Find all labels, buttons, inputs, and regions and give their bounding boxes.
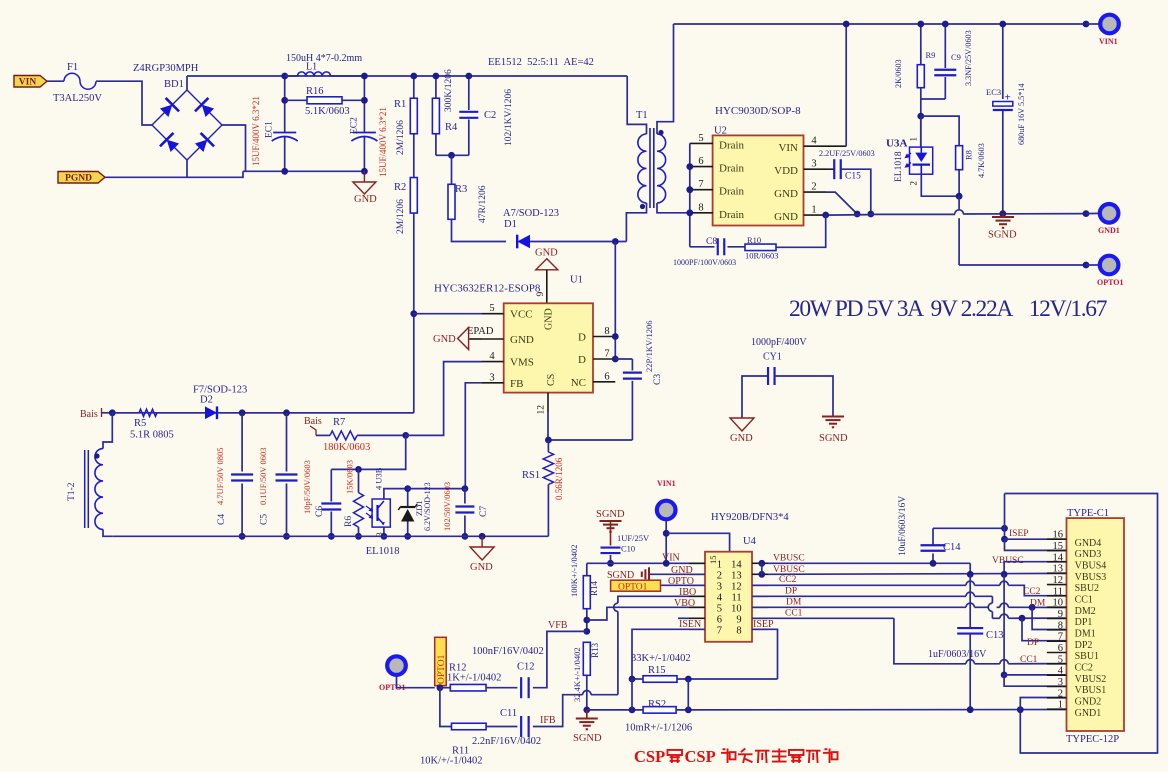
resistor R8 [956,146,963,170]
wire [186,76,188,90]
svg-text:GND4: GND4 [1075,538,1102,549]
U4 pin 13 [752,573,768,575]
T1 primary winding [627,76,646,134]
svg-text:VBUS1: VBUS1 [1075,685,1107,696]
TYPE-C1 pin 9 DP1 [1047,618,1067,620]
U2 pin 5 Drain [690,142,713,144]
wire to transformer primary bottom [626,203,646,242]
ground SGND R13 [586,710,588,719]
node [462,533,469,540]
node [281,73,288,80]
svg-text:T1-2: T1-2 [67,482,77,501]
node [917,113,924,120]
IC U4 HY920B/DFN3*4 [705,552,752,642]
U4 pin 11 [752,595,768,597]
wire DP [752,595,966,597]
resistor R3 [451,155,453,184]
node [867,211,874,218]
TYPE-C1 pin 1 GND1 [1047,708,1067,710]
wire [452,219,507,241]
svg-text:R13: R13 [590,642,600,658]
svg-text:C10: C10 [621,544,635,554]
svg-text:GND: GND [671,565,693,576]
node [355,466,362,473]
svg-text:A7/SOD-123: A7/SOD-123 [503,208,559,219]
svg-text:L1: L1 [306,62,317,73]
svg-text:10: 10 [1053,598,1064,609]
svg-text:GND1: GND1 [1075,708,1102,719]
svg-text:2M/1206: 2M/1206 [396,120,406,155]
wire U1 pin9 [546,270,548,304]
ground GND [363,171,365,182]
wire [105,171,243,177]
svg-text:GND: GND [774,211,798,223]
node [433,73,440,80]
IC U1 HYC3632ER12-ESOP8 [504,303,593,392]
svg-text:NC: NC [571,377,586,389]
capacitor C2 [468,76,470,110]
svg-text:22P/1KV/1206: 22P/1KV/1206 [644,321,654,372]
wire [548,439,632,441]
wire IFB [591,694,618,696]
svg-text:5: 5 [717,604,722,615]
svg-text:8: 8 [1058,620,1063,631]
wire DM [752,606,966,608]
svg-text:100K+/-1/0402: 100K+/-1/0402 [569,545,579,598]
T1 core [649,128,651,208]
ground SGND U4 pin2 [649,573,705,575]
capacitor C12 [520,677,522,698]
svg-text:7: 7 [698,179,703,190]
svg-text:15: 15 [1053,541,1064,552]
svg-text:4.7K/0603: 4.7K/0603 [977,143,986,178]
svg-text:100nF/16V/0402: 100nF/16V/0402 [472,646,544,657]
svg-text:R6: R6 [344,516,354,527]
svg-text:10uF/0603/16V: 10uF/0603/16V [898,496,908,556]
svg-text:CC2: CC2 [1075,662,1093,673]
resistor R11 [452,723,487,730]
wire CC1 [752,617,894,619]
svg-text:BD1: BD1 [164,79,184,90]
svg-text:3: 3 [489,372,494,383]
node [917,21,924,28]
svg-text:Drain: Drain [719,209,745,221]
svg-text:VIN1: VIN1 [657,479,676,488]
node [1001,571,1008,578]
svg-text:VMS: VMS [510,357,534,369]
svg-text:OPTO: OPTO [668,576,694,587]
svg-text:CY1: CY1 [763,352,782,363]
wire U3B emitter [383,527,385,536]
node [465,73,472,80]
svg-text:DP: DP [1027,638,1039,648]
node [1083,262,1090,269]
net label OPTO1 on U4 pin3 [661,584,706,586]
TYPE-C1 pin 5 CC2 [1047,663,1067,665]
capacitor C7 [464,489,466,504]
capacitor C9 [944,24,946,68]
wire [1086,264,1099,266]
wire V2 VBUSC to TypeC pin14 [1004,562,1066,575]
diode D2 [205,406,217,419]
svg-text:U3A: U3A [886,138,907,150]
port VIN [14,76,47,88]
wire [96,81,152,125]
node [437,684,444,691]
node [607,560,614,567]
svg-text:6: 6 [604,371,609,382]
TYPE-C1 pin 12 SBU2 [1047,584,1067,586]
T1-2 phase dot [94,453,99,458]
node [663,560,670,567]
svg-text:4: 4 [1058,666,1064,677]
wire gnd rail [963,213,1086,215]
node [283,533,290,540]
U4 pin 2 [689,573,705,575]
wire [530,241,626,243]
U2 pin 7 Drain [690,189,713,191]
svg-text:TYPEC-12P: TYPEC-12P [1066,734,1119,745]
U1 pin 6 NC [593,381,615,383]
svg-text:R5: R5 [134,418,146,429]
svg-text:CC1: CC1 [785,609,803,619]
TYPE-C1 pin 8 DM1 [1047,629,1067,631]
resistor RS2 shunt [643,707,676,714]
wire [1086,212,1099,214]
wire V2 to TypeC pin4 [1004,674,1066,676]
svg-text:OPTO1: OPTO1 [437,654,447,684]
resistor R1 [413,76,415,98]
wire [435,134,437,156]
svg-text:15K/0603: 15K/0603 [345,460,355,494]
wire R15 RS2 links [631,679,633,710]
svg-text:T3AL250V: T3AL250V [53,93,102,104]
wire ISEP loop [1005,494,1158,754]
capacitor C6 [330,469,332,501]
svg-text:2K/0603: 2K/0603 [894,59,903,88]
net label OPTO1 vertical [435,637,447,685]
wire VCC-Bais rail [112,412,414,414]
node [942,21,949,28]
svg-text:8: 8 [736,626,741,637]
svg-text:4: 4 [717,593,723,604]
IC TYPE-C1 connector [1067,518,1125,731]
svg-text:DP: DP [785,587,797,597]
svg-text:ISEN: ISEN [679,619,701,630]
svg-text:CSP: CSP [634,747,665,766]
svg-text:FB: FB [510,378,523,390]
svg-text:32.4K+/-1/0402: 32.4K+/-1/0402 [572,647,582,702]
wire CC2 [752,584,966,586]
svg-text:15: 15 [708,556,718,565]
wire R2 to VCC rail [413,213,415,413]
svg-text:VBUS4: VBUS4 [1075,560,1107,571]
svg-text:9: 9 [1058,609,1063,620]
resistor RS1 current sense [547,440,549,452]
svg-text:DP2: DP2 [1075,640,1093,651]
U1 pin 7 D [593,358,615,360]
bridge rectifier BD1 [152,90,222,160]
svg-text:4: 4 [811,136,817,147]
svg-text:6.2V/SOD-123: 6.2V/SOD-123 [423,482,432,531]
capacitor C10 [610,521,612,546]
svg-text:SGND: SGND [988,230,1017,241]
capacitor C5 [286,413,288,472]
connector VIN1 bottom [657,501,676,520]
wire [47,80,64,82]
wire VBUSC pin13 long [768,572,1067,575]
wire ISEP C14 junction [933,527,1005,529]
U2 pin 4 VIN [804,145,826,147]
svg-text:33K+/-1/0402: 33K+/-1/0402 [631,653,691,664]
node [109,409,116,416]
svg-text:CC1: CC1 [1020,655,1038,665]
transformer winding T1-2 [103,413,112,449]
resistor R7 [316,434,330,436]
svg-text:R3: R3 [455,184,467,195]
svg-text:VBUS3: VBUS3 [1075,572,1107,583]
wire [220,412,414,414]
capacitor C15 [826,168,834,170]
svg-text:VIN: VIN [19,78,37,88]
resistor R6 [358,469,360,492]
T1 secondary winding [657,24,674,134]
wire gnd rail [871,213,955,215]
wire VFB [533,631,587,687]
svg-text:8: 8 [604,326,609,337]
svg-text:VCC: VCC [510,309,533,321]
wire ISEP vertical [1004,494,1006,540]
svg-text:2M/1206: 2M/1206 [396,199,406,234]
svg-text:EC3: EC3 [986,87,1001,97]
svg-text:R10: R10 [747,235,761,245]
T1 primary phase dot [640,204,645,209]
wire top right rail VIN1 [674,23,1087,25]
svg-text:14: 14 [1053,552,1064,563]
svg-text:SGND: SGND [596,509,625,520]
wire bridge bottom vertex [186,160,188,177]
wire V2 to TypeC pin3 [1004,675,1066,686]
svg-text:GND3: GND3 [1075,549,1102,560]
TYPE-C1 pin 11 CC1 [1047,595,1067,597]
svg-text:GND: GND [510,334,534,346]
svg-text:D2: D2 [200,395,213,406]
U2 pin 2 GND [804,191,826,193]
svg-text:10pF/50V/0603: 10pF/50V/0603 [302,460,312,514]
node [758,560,765,567]
wire [921,98,946,100]
svg-text:47R/1206: 47R/1206 [478,185,488,223]
svg-text:4 U3B: 4 U3B [374,467,384,490]
svg-text:VBUSC: VBUSC [773,565,805,575]
svg-text:D: D [578,332,586,344]
node [629,676,636,683]
svg-text:0.1UF/50V 0603: 0.1UF/50V 0603 [258,448,268,505]
node [930,560,937,567]
svg-text:4.7UF/50V 0805: 4.7UF/50V 0805 [215,448,225,505]
capacitor C3 [631,359,633,371]
svg-text:7: 7 [717,626,722,637]
node [1001,672,1008,679]
svg-text:C6: C6 [315,506,325,517]
svg-text:EC1: EC1 [265,121,275,138]
TYPE-C1 pin 4 VBUS2 [1047,674,1067,676]
resistor R15 [643,676,677,683]
svg-text:R7: R7 [333,417,345,428]
U4 pin 3 [689,584,705,586]
svg-text:OPTO1: OPTO1 [618,583,648,593]
resistor R14 [586,563,588,575]
node [1017,706,1024,713]
node [1083,21,1090,28]
svg-text:F1: F1 [67,62,78,73]
connector GND1 [1100,204,1119,223]
node [1019,615,1026,622]
svg-text:C2: C2 [484,110,496,121]
wire ISEP from U4 pin8 [752,629,778,679]
wire U1 pin5 VCC [414,313,482,315]
svg-text:5: 5 [489,303,494,314]
svg-text:SBU1: SBU1 [1075,651,1099,662]
wire VBO [587,607,705,620]
svg-text:15UF/400V 6.3*21: 15UF/400V 6.3*21 [251,96,261,166]
node [462,485,469,492]
svg-text:VBUS2: VBUS2 [1075,674,1107,685]
U4 pin 9 [752,617,768,619]
node [1001,525,1008,532]
svg-text:CC1: CC1 [1075,594,1093,605]
node [583,628,590,635]
svg-text:CC2: CC2 [779,575,797,585]
svg-text:C8: C8 [706,237,717,247]
node [448,152,455,159]
node [381,533,388,540]
resistor R13 [583,642,590,675]
svg-text:GND: GND [774,188,798,200]
ground SGND [1002,214,1004,217]
resistor R12 [440,687,451,689]
svg-text:DM: DM [786,598,802,608]
U2 pin 1 GND [804,214,826,216]
connector OPTO1 [1100,256,1119,275]
svg-text:2.2nF/16V/0402: 2.2nF/16V/0402 [472,736,541,747]
wire U2 drain bus [689,143,691,246]
svg-text:EPAD: EPAD [467,326,494,337]
node [822,212,829,219]
node [999,21,1006,28]
U4 pin 14 [752,562,768,564]
svg-text:VIN1: VIN1 [1099,37,1118,46]
U4 pin 5 [689,606,705,608]
svg-text:VFB: VFB [548,620,568,631]
U1 pin 12 bottom [547,393,549,412]
svg-text:7: 7 [1058,632,1063,643]
U1 pin EPAD GND [482,338,504,340]
svg-text:ISEP: ISEP [753,619,774,630]
svg-text:R4: R4 [445,122,458,133]
svg-text:C15: C15 [845,172,861,182]
U2 pin 8 Drain [690,212,713,214]
wire VIN net [587,562,705,564]
wire U1 pin8 [614,242,616,360]
svg-text:R16: R16 [306,86,324,97]
capacitor C4 [241,413,243,472]
fuse F1 [64,73,96,89]
svg-text:2: 2 [717,571,722,582]
node [328,533,335,540]
svg-text:SBU2: SBU2 [1075,583,1099,594]
svg-text:6: 6 [698,156,703,167]
svg-text:13: 13 [1053,564,1064,575]
ground GND bias [481,536,483,547]
svg-text:1: 1 [909,137,919,142]
wire [413,134,415,178]
svg-text:10: 10 [731,604,742,615]
node [612,333,619,340]
svg-text:SGND: SGND [819,433,848,444]
svg-text:HY920B/DFN3*4: HY920B/DFN3*4 [711,512,789,523]
U2 pin 3 VDD [804,168,826,170]
wire to R8 [921,116,959,146]
node [361,73,368,80]
node [612,238,619,245]
U4 pin 6 [689,617,705,619]
node [1029,604,1036,611]
svg-text:C11: C11 [500,708,517,719]
svg-text:3: 3 [811,159,816,170]
U4 pin6 stub [678,617,689,619]
U4 pin 8 [752,628,768,630]
svg-text:GND1: GND1 [1098,226,1120,235]
optocoupler U3B EL1018 phototransistor [372,499,390,527]
U4 pin 4 [689,595,705,597]
wire bridge right vertex [222,125,246,171]
svg-text:5: 5 [698,133,703,144]
svg-text:680uF 16V 5.5*14: 680uF 16V 5.5*14 [1017,84,1026,146]
svg-text:8: 8 [698,202,703,213]
resistor R9 [920,24,922,65]
svg-text:DM: DM [1030,599,1046,609]
svg-text:6: 6 [1058,643,1063,654]
node [355,533,362,540]
TYPE-C1 pin 13 VBUS3 [1047,572,1067,574]
svg-text:T1: T1 [636,110,648,121]
svg-text:5: 5 [1058,654,1063,665]
svg-text:SGND: SGND [607,570,634,581]
optocoupler U3A EL1018 LED [910,147,933,174]
svg-text:SGND: SGND [573,733,602,744]
U4 pin 7 [689,628,705,630]
node [686,163,693,170]
wire V2 down [1003,574,1005,675]
wire VBUSC pin14 [768,562,970,564]
svg-text:R14: R14 [589,580,599,596]
svg-text:Bais: Bais [80,409,98,420]
svg-text:GND: GND [433,334,456,345]
node [583,707,590,714]
svg-text:1UF/25V: 1UF/25V [617,533,650,543]
svg-text:RS2: RS2 [648,699,666,710]
svg-text:R1: R1 [394,99,406,110]
node [583,617,590,624]
wire [436,154,469,156]
capacitor C11 [520,716,522,737]
svg-text:12: 12 [1053,575,1064,586]
svg-text:CS: CS [546,374,557,386]
wire [1086,23,1099,25]
wire TypeC pin2 GND2 [1020,698,1066,710]
svg-text:16: 16 [1053,530,1064,541]
